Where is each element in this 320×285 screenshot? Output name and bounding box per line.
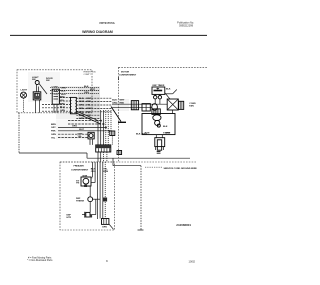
small connector on ground run (117, 151, 122, 155)
svg-text:FAN: FAN (189, 104, 194, 107)
control thermostat (52, 89, 59, 104)
left long ground wire (18, 113, 20, 153)
svg-text:THERM: THERM (76, 200, 84, 202)
svg-text:BRN: BRN (51, 124, 56, 126)
svg-text:WHT: WHT (120, 99, 126, 101)
svg-text:COMP'T: COMP'T (84, 74, 92, 76)
vertical bundle dotted (105, 110, 107, 145)
terminal connector block (71, 97, 77, 113)
svg-text:BLK: BLK (112, 99, 117, 101)
svg-text:GRN: GRN (102, 226, 107, 228)
svg-text:ORG: ORG (72, 126, 77, 128)
service cord note line (113, 165, 141, 167)
timer to condenser fan diagonal (165, 93, 170, 99)
vertical ground wire x113 (112, 158, 114, 166)
freezer compartment dashed box (60, 162, 115, 230)
motor compartment dashed box top (119, 66, 208, 68)
svg-text:242086801: 242086801 (176, 223, 191, 227)
svg-text:FRT21TC5A: FRT21TC5A (100, 21, 115, 25)
fan to compressor box link (172, 110, 174, 114)
svg-text:GRY: GRY (51, 127, 56, 129)
cabinet ground bar (118, 121, 126, 123)
svg-text:YEL: YEL (78, 136, 83, 138)
svg-text:BLK: BLK (91, 169, 96, 171)
trunk connector hatched (131, 101, 138, 110)
svg-text:GRN: GRN (51, 134, 56, 136)
svg-text:ORG: ORG (84, 92, 89, 94)
defrost thermostat (88, 197, 93, 202)
svg-text:YEL: YEL (103, 169, 108, 171)
plug leads (155, 135, 157, 138)
svg-text:BLK: BLK (136, 134, 141, 136)
trunk connector pair (142, 104, 150, 111)
leads to box bottom (23, 98, 25, 113)
grounding clip (88, 132, 94, 139)
svg-text:SERVICE CORD GROUND WIRE: SERVICE CORD GROUND WIRE (164, 168, 198, 170)
svg-text:LIGHT: LIGHT (21, 89, 28, 91)
svg-text:PNK: PNK (51, 131, 56, 133)
block right wires (76, 97, 112, 99)
svg-text:ORG: ORG (91, 171, 96, 173)
service cord plug (155, 138, 165, 147)
scan texture underlays (56, 86, 100, 119)
svg-text:WHT: WHT (79, 129, 85, 131)
svg-text:BLK: BLK (61, 91, 66, 93)
motor compartment tick (118, 77, 120, 80)
fresh food compartment dashed box (17, 70, 92, 113)
svg-text:WHT: WHT (90, 89, 96, 91)
timer terminals (154, 96, 157, 99)
svg-text:WHT: WHT (61, 94, 67, 96)
overload protector (152, 104, 158, 111)
svg-text:YEL: YEL (51, 137, 56, 139)
svg-text:GRN: GRN (165, 132, 170, 134)
svg-text:MOTOR: MOTOR (121, 71, 130, 73)
svg-text:BRN: BRN (103, 171, 108, 173)
small bundle connector right pair (110, 131, 115, 136)
plug ground pin (157, 150, 161, 153)
lower harness wires (68, 120, 101, 122)
compressor overload striped block (152, 109, 160, 115)
bundle below connector (97, 152, 99, 162)
light switch S1 (35, 81, 39, 85)
defrost timer (152, 87, 165, 94)
svg-text:FN: FN (76, 183, 79, 185)
svg-text:10/02: 10/02 (189, 259, 196, 263)
svg-text:BLK: BLK (166, 88, 171, 90)
svg-text:5995212399: 5995212399 (179, 24, 194, 27)
svg-text:WIRING DIAGRAM: WIRING DIAGRAM (82, 30, 113, 34)
motor compartment dashed box left (118, 67, 120, 162)
bundle in freezer (92, 162, 94, 177)
freezer ground connector (102, 219, 109, 225)
svg-text:FREEZER: FREEZER (74, 166, 85, 168)
svg-text:COMPARTMENT: COMPARTMENT (119, 73, 137, 76)
svg-text:WHT: WHT (142, 134, 148, 136)
long ground run to motor compartment (87, 157, 190, 159)
lamp L1 (21, 92, 27, 98)
cabinet ground diagonal (111, 107, 121, 122)
upper wires (50, 86, 99, 88)
condenser fan motor (167, 99, 178, 110)
motor compartment dashed bottom (60, 161, 196, 163)
lamp socket (33, 92, 41, 100)
connector block left wires (60, 97, 71, 99)
svg-text:BLK: BLK (163, 126, 168, 128)
defrost heater (89, 202, 91, 212)
compressor box (142, 114, 175, 135)
svg-text:ORG: ORG (61, 87, 66, 89)
svg-text:HTR: HTR (67, 217, 72, 219)
ground dashed drop (140, 166, 142, 230)
evaporator fan motor (81, 177, 91, 186)
compressor motor windings (153, 115, 161, 121)
harness wire end dots (100, 120, 102, 122)
title rule (10, 34, 207, 36)
svg-text:BLK: BLK (84, 86, 89, 88)
main bundle connector (96, 145, 111, 152)
vertical bundle solid (97, 121, 99, 145)
service cord note leader (145, 166, 162, 168)
fan switch contact wire (165, 93, 173, 95)
trunk wires in motor compartment (112, 103, 167, 105)
small splice on bundle (103, 198, 108, 202)
svg-text:COMPARTMENT: COMPARTMENT (71, 168, 89, 171)
svg-text:* = Non-Illustrated Parts: * = Non-Illustrated Parts (27, 259, 53, 262)
